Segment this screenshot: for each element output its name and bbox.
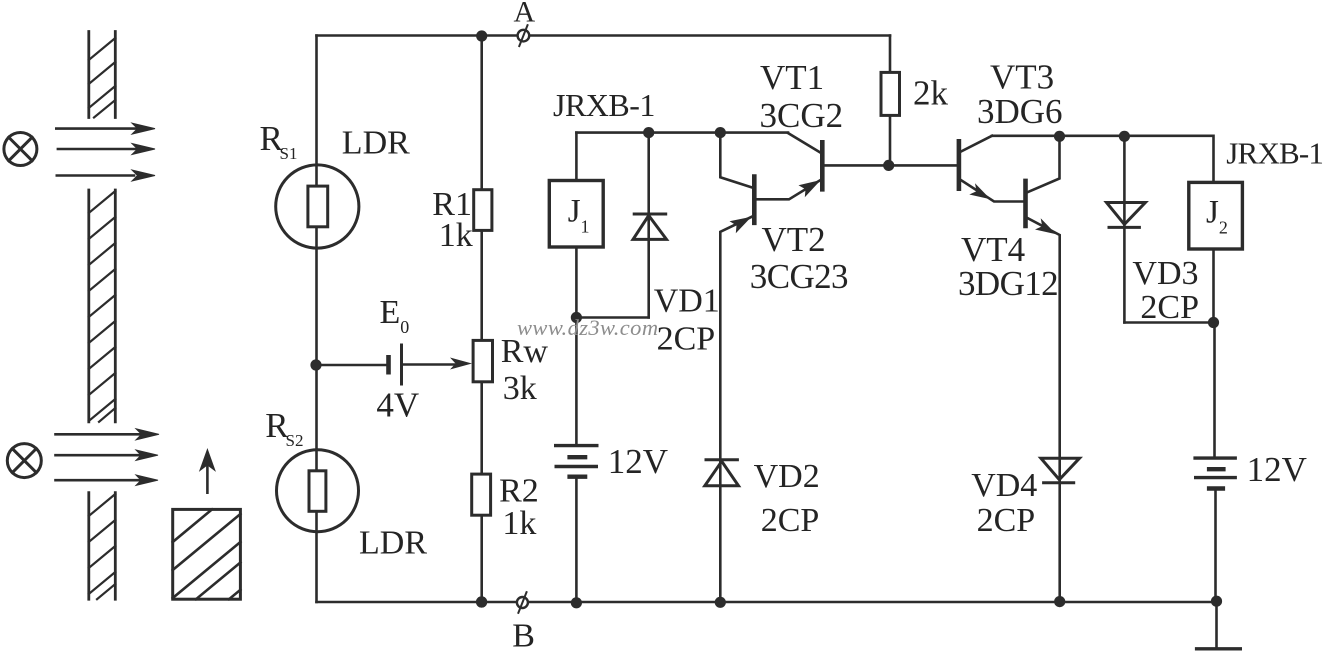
svg-text:S1: S1 [280,144,298,163]
wire right 12V battery to bottom bus [1214,490,1217,603]
moving object hatched block [173,509,241,599]
wire VT3 collector diagonal to collector bus [960,136,992,152]
node E0 junction dot [310,359,321,370]
svg-text:www.dz3w.com: www.dz3w.com [517,315,658,340]
motion arrow of moving object [200,450,215,493]
svg-text:VT3: VT3 [990,58,1054,97]
node bottom bus junction dot at VD2 branch [715,597,726,608]
svg-text:LDR: LDR [359,525,427,562]
svg-text:12V: 12V [1247,450,1307,489]
ground bar [1197,647,1241,650]
svg-text:3CG23: 3CG23 [750,257,848,296]
transistor VT2 emitter arrowhead PNP [730,217,752,234]
node 2k bottom junction dot [883,160,894,171]
svg-text:R2: R2 [499,473,539,510]
svg-text:B: B [512,618,535,652]
wire resistor chain vertical A to B [480,36,483,602]
wire VT3 emitter to VT4 base [960,180,1024,202]
photoresistor RS1 LDR circle and body [276,165,359,248]
svg-text:E0: E0 [380,294,410,337]
resistor 2k body [881,72,900,115]
wire J2 node down to right 12V battery [1213,323,1216,458]
svg-text:12V: 12V [608,442,668,481]
node bottom bus junction dot at ground branch [1211,596,1222,607]
battery E0 long plate [400,344,403,386]
svg-text:LDR: LDR [342,124,410,161]
svg-text:S2: S2 [286,431,304,450]
relay J2 coil box [1189,182,1243,249]
wire VT1 emitter to VT2 base [756,180,822,200]
light ray arrow bottom 3 [56,475,159,485]
svg-text:1k: 1k [502,505,536,542]
wire VD1 branch vertical [647,133,650,318]
battery 12V right plates [1193,458,1237,488]
battery E0 short plate [386,355,391,375]
wire E0 battery to wiper arrow [403,363,458,366]
node collector bus junction dot VT4 [1054,131,1065,142]
svg-text:2CP: 2CP [977,502,1036,539]
wire VD3 anode over to J2 bottom node [1124,321,1213,324]
svg-text:2CP: 2CP [657,321,716,358]
potentiometer Rw body [473,340,492,381]
transistor VT1 emitter arrowhead PNP [799,180,821,197]
lamp light source bottom [7,444,41,478]
svg-text:VD4: VD4 [971,467,1037,504]
transistor VT1 base bar [820,140,825,192]
photoresistor RS2 LDR circle and body [277,450,359,532]
diode VD1 pointing up [633,214,668,239]
wire top bus from left rail to 2k branch [317,34,891,37]
node B junction dot [476,596,487,607]
svg-text:3k: 3k [503,370,537,407]
wire 2k branch vertical [889,36,892,166]
baffle wall top segment hatched [89,32,116,118]
wire J1 top horizontal to VT1 collector [576,131,788,134]
resistor R1 body [474,190,492,231]
wire VD1 anode to J1 node [576,316,648,319]
transistor VT4 base bar [1023,179,1028,229]
transistor VT4 emitter arrowhead NPN [1035,218,1056,234]
transistor VT3 base bar [957,139,962,191]
light ray arrow bottom 1 [56,429,160,440]
wire base bus VT1 node VT3 [824,164,958,167]
svg-text:3DG6: 3DG6 [977,92,1063,131]
wire left rail vertical through LDRs [315,36,318,603]
svg-text:JRXB-1: JRXB-1 [1226,136,1323,171]
resistor R2 body [472,474,491,515]
battery 12V left plates [554,446,599,477]
diode VD3 pointing down [1107,203,1146,228]
terminal B with slash [517,591,528,614]
node bottom bus junction dot at R chain [476,596,487,607]
wire J2 bottom to node [1212,249,1215,323]
wire ground stem below bottom bus [1215,602,1218,649]
wire J1 top vertical [575,133,578,181]
node A junction dot [476,30,487,41]
wire VD3 branch vertical [1123,136,1126,322]
light ray arrow bottom 2 [56,450,159,460]
terminal A with slash [518,24,530,47]
wire J1 node down to 12V battery [575,318,578,445]
svg-text:4V: 4V [376,386,419,425]
wire VT4 emitter down through VD4 to bottom bus [1027,218,1060,602]
transistor VT3 emitter arrowhead NPN [969,183,990,199]
svg-text:VD2: VD2 [754,458,820,495]
wire bottom bus B [317,601,1217,604]
node bottom bus junction dot at J1 branch [571,597,582,608]
wire VT2 collector from J1 bus [720,133,753,188]
svg-text:2CP: 2CP [761,502,820,539]
svg-text:JRXB-1: JRXB-1 [553,87,655,123]
svg-text:VD1: VD1 [654,283,720,320]
wire collector bus to J2 [992,136,1214,182]
node J1 top bus junction dot right [715,127,726,138]
wire E0 branch from left rail to battery [317,364,388,367]
transistor VT2 base bar [752,174,757,225]
svg-text:3DG12: 3DG12 [958,264,1058,303]
svg-text:2CP: 2CP [1140,289,1199,326]
relay J1 coil box [549,181,603,248]
potentiometer wiper arrowhead [450,358,472,370]
diode VD4 pointing down [1041,458,1080,483]
lamp light source top [4,133,37,166]
node J1 top bus junction dot left [643,127,654,138]
node J1 bottom junction dot [571,312,582,323]
svg-text:3CG2: 3CG2 [760,96,844,135]
svg-text:2k: 2k [913,74,949,113]
wire VT4 collector up to collector bus [1026,136,1059,192]
svg-text:A: A [514,0,536,29]
wire VT2 emitter down through VD2 to bottom bus [720,216,753,602]
node collector bus junction dot VD3 [1119,131,1130,142]
light ray arrow top 1 [56,123,155,134]
baffle wall bottom segment hatched [89,493,116,600]
wire J1 bottom to node [575,247,578,318]
light ray arrow top 2 [58,144,155,155]
diode VD2 pointing up [705,460,739,486]
node J2 bottom junction dot [1208,317,1219,328]
svg-text:VT1: VT1 [760,58,824,97]
light ray arrow top 3 [57,170,155,181]
baffle wall middle segment hatched [89,190,116,422]
svg-text:1k: 1k [439,217,473,254]
node bottom bus junction dot at VD4 branch [1054,596,1065,607]
wire VT1 collector diagonal [788,133,821,153]
wire 12V battery to bottom bus [575,478,578,602]
svg-text:VD3: VD3 [1132,255,1198,292]
svg-text:VT2: VT2 [762,220,826,259]
